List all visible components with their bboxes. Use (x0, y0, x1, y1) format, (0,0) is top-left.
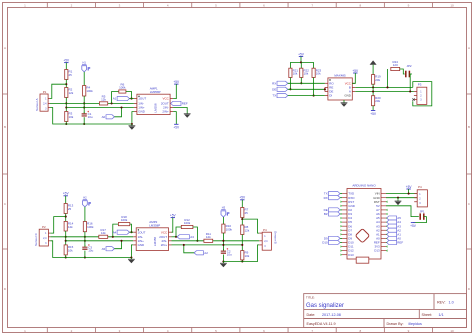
svg-text:RX: RX (272, 81, 276, 85)
wire R18 to 1OUT (130, 224, 133, 233)
wire TX row (288, 95, 325, 97)
wire R2 down through rows to R3 (65, 98, 67, 112)
svg-text:12k: 12k (206, 235, 211, 239)
wire R4 down to rows and C1 (83, 96, 85, 124)
wire P1 pin1 to R1-R2 junction (50, 84, 66, 98)
wire rail stubs (290, 62, 313, 68)
svg-text:10k: 10k (316, 72, 321, 76)
net flag REF (171, 101, 188, 105)
svg-text:+5V: +5V (239, 196, 246, 200)
junction row1 x84 (83, 102, 85, 104)
wire row1 sensor output to amp (50, 102, 134, 104)
svg-text:10u: 10u (88, 249, 93, 253)
svg-text:+5V: +5V (352, 69, 359, 73)
connector P4 sensor B (259, 228, 271, 250)
svg-text:25: 25 (245, 211, 249, 215)
title block outline (304, 294, 467, 328)
svg-text:10k: 10k (69, 115, 74, 119)
junction row1 x85 (84, 236, 86, 238)
wire A line (355, 91, 414, 93)
net flag BZ (324, 212, 340, 216)
wire +5V to pullup rail (290, 57, 313, 64)
drawn by field (387, 322, 422, 326)
wire 5V row to JP1 (386, 206, 419, 217)
wire R24 to JP2 (400, 69, 405, 74)
svg-text:B: B (4, 125, 6, 129)
net flag A1 (113, 97, 130, 101)
wire flag RX to pin (340, 197, 342, 199)
resistor R24 (391, 60, 400, 71)
svg-text:+5V: +5V (173, 126, 180, 130)
resistor R19 (372, 75, 382, 85)
svg-text:12k: 12k (245, 228, 250, 232)
svg-text:H3: H3 (222, 206, 226, 210)
wire feedback tap up right (176, 227, 181, 237)
net flag DE (324, 208, 340, 212)
date field (307, 313, 341, 317)
resistor R10 (222, 224, 233, 233)
wire sensor B pin1 route (242, 219, 259, 233)
wire R16 down to rows and C3 (84, 232, 86, 258)
svg-text:GND: GND (138, 110, 145, 114)
power flag +5V (352, 69, 359, 73)
unconnected pin markers (341, 201, 388, 256)
svg-text:+5V: +5V (63, 58, 70, 62)
wire flag DE to pin (340, 209, 342, 211)
svg-text:+5V: +5V (370, 112, 377, 116)
wire P2 pin1 to R13-R14 junction (50, 217, 65, 234)
wire GND row to P4b pin2 (386, 197, 417, 200)
svg-text:2IN+: 2IN+ (161, 243, 168, 247)
wire A4 flag to 1OUT pin (130, 231, 134, 233)
power flag +5V (173, 124, 180, 129)
wire row2 to amp 1IN+ (66, 240, 134, 242)
resistor R4 (83, 86, 94, 97)
net flag TX (324, 192, 340, 196)
jumper JP1 (420, 210, 425, 220)
junction R10 row 2IN+ (222, 244, 224, 246)
net port H3 (221, 206, 229, 217)
svg-text:H2: H2 (83, 196, 87, 200)
title text Gas signalizer (306, 295, 344, 309)
wire JP2 to A line (409, 74, 411, 93)
resistor R17 (99, 228, 108, 239)
power flag +5V (410, 223, 417, 228)
net flag A2 (194, 251, 208, 255)
resistor R1 (65, 70, 73, 80)
svg-text:ARDUINO NANO: ARDUINO NANO (352, 184, 376, 188)
power flag +5V (63, 192, 70, 196)
wire R1 to R2 (65, 80, 67, 88)
junction C3 bottom (84, 256, 86, 258)
junction row1 x66 (65, 102, 67, 104)
junction row2 x65 (65, 240, 67, 242)
svg-text:DI: DI (329, 94, 332, 98)
wire VIN row to P4b pin1 (386, 189, 417, 195)
wire VCC2 to +5V (172, 218, 173, 233)
label Sensor A (35, 98, 39, 111)
resistor R13 (64, 204, 74, 214)
svg-text:D13: D13 (348, 253, 354, 257)
label Sensor C (34, 232, 38, 246)
svg-text:LM358P: LM358P (149, 224, 160, 228)
svg-text:+5V: +5V (63, 192, 70, 196)
resistor R20 (372, 96, 382, 106)
svg-text:D10: D10 (322, 241, 328, 245)
svg-text:+5V: +5V (170, 213, 177, 217)
net port H2 (83, 196, 91, 207)
wire feedback tap up c3 (112, 224, 119, 238)
ground (341, 101, 348, 107)
junction R7-R8 (241, 218, 243, 220)
junction row2 x66 (65, 106, 67, 108)
wire row2 to amp 1IN+ (66, 107, 134, 109)
capacitor C1 (82, 111, 93, 119)
no-connect marker P3 pin3 (412, 98, 414, 100)
net flag A5 (386, 216, 401, 220)
frame row ticks and letters (3, 46, 472, 291)
junction row 2IN+ x242 (241, 244, 243, 246)
svg-text:1OUT: 1OUT (138, 97, 146, 101)
net flag A3 (177, 235, 194, 239)
resistor R15 (64, 245, 74, 255)
svg-text:10k: 10k (293, 72, 298, 76)
svg-text:TX: TX (272, 94, 276, 98)
wire R22 to RX row (300, 78, 302, 85)
svg-text:LM358: LM358 (153, 237, 157, 247)
wire feedback tap up (111, 92, 119, 105)
junction row2 x84 (83, 106, 85, 108)
resistor R8 (241, 225, 250, 235)
resistor R2 (65, 88, 74, 98)
net flag A2 (386, 228, 401, 232)
wire flag TX to pin (340, 193, 342, 195)
svg-text:GND: GND (344, 94, 351, 98)
wire R12 to R11 row (193, 227, 199, 242)
svg-text:B: B (468, 125, 470, 129)
svg-text:H1: H1 (83, 61, 87, 65)
wire DE row (288, 88, 325, 90)
wire P1 pin3 to ground rail (50, 108, 132, 125)
resistor R14 (64, 221, 74, 231)
resistor R16 (83, 222, 94, 232)
svg-text:10u: 10u (88, 115, 93, 119)
net flag REF (386, 240, 403, 244)
svg-text:10k: 10k (68, 248, 73, 252)
svg-text:P3: P3 (418, 83, 422, 87)
svg-text:100k: 100k (184, 221, 191, 225)
svg-text:1OUT: 1OUT (138, 230, 146, 234)
wire bottom rail right (223, 261, 242, 263)
wire R14 down to R15 (65, 231, 67, 245)
svg-text:20k: 20k (375, 78, 380, 82)
wire R19-R20 column (372, 87, 374, 95)
svg-text:100k: 100k (86, 89, 93, 93)
svg-text:A0: A0 (102, 115, 106, 119)
net flag A1 (386, 232, 401, 236)
wire RE-DE tie (324, 87, 326, 91)
svg-text:JP1: JP1 (420, 210, 425, 214)
svg-text:P4: P4 (263, 228, 267, 232)
svg-text:10k: 10k (304, 72, 309, 76)
op-amp AMP2 LM358P (133, 220, 171, 250)
net flag A3 (386, 224, 401, 228)
net flag A0 (102, 115, 115, 119)
module U2 ARDUINO NANO (342, 184, 386, 264)
svg-text:25: 25 (68, 207, 72, 211)
wire R13 to R14 (65, 214, 67, 222)
connector P5 power (414, 185, 427, 207)
wire row1 sensor C output (50, 236, 133, 238)
svg-text:P2: P2 (42, 225, 46, 229)
svg-text:REF: REF (182, 102, 188, 106)
power flag +5V (170, 213, 177, 217)
wire sensor B pin3 route (242, 245, 259, 262)
svg-text:P4: P4 (418, 185, 422, 189)
net flag A4 (386, 220, 401, 224)
wire A5 flag to row2 (114, 240, 122, 249)
wire R15 to bottom rail (65, 255, 67, 258)
svg-text:100k: 100k (119, 86, 126, 90)
svg-text:2017-12-08: 2017-12-08 (322, 313, 341, 317)
rev field (437, 301, 454, 305)
wire RX row (288, 82, 325, 84)
wire 2IN- row (172, 240, 260, 242)
capacitor C2 (221, 248, 232, 256)
wire A0 flag to row2 (114, 106, 122, 116)
op-amp AMP1 LM358P (134, 87, 173, 115)
svg-text:25: 25 (69, 73, 73, 77)
net flag RX (324, 196, 340, 200)
net flag D9 (324, 236, 340, 240)
svg-text:100k: 100k (121, 218, 128, 222)
svg-text:LM358P: LM358P (150, 90, 161, 94)
svg-text:MAX485: MAX485 (334, 74, 346, 78)
ground (220, 262, 227, 268)
junction R10 row 2IN- (222, 240, 224, 242)
resistor R18 (118, 215, 129, 226)
wire R8 down to R9 (241, 235, 243, 251)
wire R7 to R8 (241, 218, 243, 226)
power flag +5V (370, 111, 377, 116)
svg-text:Gas signalizer: Gas signalizer (306, 303, 344, 309)
junction R15 bottom (65, 256, 67, 258)
junction R13-R14 (65, 216, 67, 218)
net flag DE (272, 87, 288, 91)
power flag +5V (298, 52, 305, 56)
svg-text:12k: 12k (69, 91, 74, 95)
wire A2 flag to 2IN+ row (183, 244, 194, 253)
connector P3 RS-485 out (414, 83, 427, 105)
power flag +5V (239, 196, 246, 200)
chip U1 MAX485 (325, 74, 355, 101)
svg-text:1.0: 1.0 (449, 301, 454, 305)
wire +5V to R13 (65, 196, 67, 204)
wire VCC to +5V (173, 84, 176, 99)
svg-text:A: A (4, 46, 6, 50)
svg-text:REF: REF (397, 241, 403, 245)
junction row2 x85 (84, 240, 86, 242)
wire R19 to B line (372, 84, 374, 88)
jumper JP2 (406, 64, 412, 78)
resistor R22 (300, 68, 310, 77)
connector P2 sensor C (39, 225, 50, 246)
svg-text:LM358: LM358 (154, 103, 158, 113)
wire net port to R16 (84, 207, 86, 222)
wire VCC to +5V (352, 73, 355, 83)
svg-text:illepidus: illepidus (409, 322, 422, 326)
wire R23 to TX row (313, 78, 315, 97)
wire R6 to 1OUT (126, 92, 133, 100)
resistor R7 (241, 208, 249, 218)
net flag A0 (386, 236, 401, 240)
resistor R3 (65, 112, 74, 122)
label Sensor B (274, 231, 278, 244)
ground arrow above R19 (370, 60, 377, 74)
ground (395, 199, 402, 205)
svg-text:TITLE:: TITLE: (306, 295, 315, 299)
ground (128, 258, 135, 264)
wire net port to R10 (222, 217, 224, 224)
wire JP1 to +5V flag (413, 217, 426, 223)
svg-text:REV:: REV: (437, 301, 445, 305)
svg-text:12k: 12k (101, 231, 106, 235)
wire GND pin to rail (131, 112, 134, 125)
svg-text:P1: P1 (43, 90, 47, 94)
svg-text:VCC: VCC (162, 97, 169, 101)
svg-text:+5V: +5V (410, 224, 417, 228)
wire 2IN- to ground (173, 108, 187, 113)
svg-text:A1: A1 (113, 97, 117, 101)
wire A1 flag to 1OUT pin (130, 98, 134, 100)
net flag RX (272, 81, 288, 85)
wire flag D9 to pin (340, 237, 342, 239)
wire flag D10 to pin (340, 241, 342, 243)
wire R21 to DE row (289, 78, 291, 91)
power flag +5V (406, 185, 413, 189)
wire 2IN+ row (172, 244, 243, 246)
resistor R23 (312, 68, 322, 77)
wire +5V to R1 (65, 63, 67, 70)
wire net port to R4 (83, 72, 85, 86)
svg-text:BZ: BZ (324, 212, 328, 216)
svg-text:10: 10 (450, 3, 454, 7)
junction C1 bottom (83, 123, 85, 125)
resistor R21 (289, 68, 299, 77)
svg-text:10: 10 (450, 329, 454, 333)
svg-text:DE: DE (272, 87, 276, 91)
junction R9 bottom (241, 260, 243, 262)
junction row1 x65 (65, 236, 67, 238)
svg-text:Sensor B: Sensor B (274, 231, 278, 244)
svg-text:Sensor C: Sensor C (34, 232, 38, 246)
svg-text:RX: RX (324, 196, 328, 200)
svg-text:10u: 10u (227, 253, 232, 257)
svg-text:20k: 20k (375, 99, 380, 103)
resistor R9 (241, 251, 250, 260)
resistor R5 (99, 94, 107, 105)
wire AMP2 GND to rail (130, 245, 133, 259)
svg-text:2IN+: 2IN+ (162, 110, 169, 114)
svg-text:GND: GND (138, 243, 145, 247)
wire R9 to bottom rail (241, 260, 243, 262)
wire B line (355, 86, 413, 88)
wire chip GND down (343, 100, 345, 101)
net port H1 (82, 61, 90, 72)
svg-text:+5V: +5V (298, 52, 305, 56)
svg-text:VCC: VCC (161, 230, 168, 234)
wire B line to R24 (386, 69, 388, 88)
svg-text:120: 120 (393, 63, 398, 67)
wire flag BZ to pin (340, 213, 342, 215)
wire 2OUT to A3 flag (172, 236, 178, 238)
resistor R12 (181, 218, 193, 229)
svg-text:12k: 12k (101, 98, 106, 102)
resistor R6 (119, 83, 126, 94)
ground (129, 124, 136, 130)
ground (184, 112, 191, 118)
wire +5V to R7 (241, 200, 243, 208)
svg-text:12k: 12k (68, 225, 73, 229)
wire 2IN+ to +5V below (173, 112, 176, 125)
wire B line loop around P3 (413, 82, 432, 106)
resistor R11 (204, 232, 213, 243)
connector P1 sensor A (40, 90, 50, 111)
net flag TX (272, 94, 287, 98)
wire R10 down through rows to C2 (222, 233, 224, 262)
junction R1-R2 (65, 83, 67, 85)
svg-text:A5: A5 (102, 247, 106, 251)
svg-text:100k: 100k (226, 228, 233, 232)
power flag +5V (173, 80, 180, 84)
svg-text:1/1: 1/1 (439, 313, 444, 317)
junction C2 bottom (222, 260, 224, 262)
net flag D10 (322, 240, 340, 244)
wire R20 to +5V (372, 106, 374, 111)
power flag +5V (63, 58, 70, 62)
net flag A4 (113, 230, 130, 234)
svg-text:A3: A3 (190, 235, 194, 239)
svg-text:JP2: JP2 (407, 64, 412, 68)
capacitor C3 (82, 244, 93, 252)
wire P2 pin3 to bottom rail (50, 241, 131, 258)
svg-text:A4: A4 (113, 230, 117, 234)
svg-text:100k: 100k (87, 225, 94, 229)
svg-text:Date:: Date: (307, 313, 316, 317)
easyeda version field (307, 322, 336, 326)
svg-text:A: A (468, 46, 470, 50)
wire R3 to bottom rail (65, 122, 67, 125)
svg-text:Drawn By:: Drawn By: (387, 322, 404, 326)
svg-text:Sheet:: Sheet: (422, 313, 433, 317)
net flag A5 (102, 247, 115, 251)
svg-text:10k: 10k (245, 254, 250, 258)
sheet field (422, 313, 444, 317)
svg-text:D13: D13 (374, 249, 380, 253)
svg-text:EasyEDA V4.11.9: EasyEDA V4.11.9 (307, 322, 336, 326)
svg-text:+5V: +5V (173, 80, 180, 84)
svg-text:Sensor A: Sensor A (35, 98, 39, 111)
junction R3 bottom (65, 123, 67, 125)
svg-text:A2: A2 (204, 251, 208, 255)
svg-text:+5V: +5V (406, 185, 413, 189)
